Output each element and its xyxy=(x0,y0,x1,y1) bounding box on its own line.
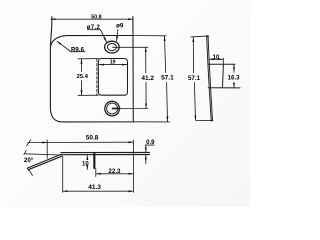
dimension 57.1 (side view) xyxy=(191,36,211,121)
dimension 50.8 (bottom view) xyxy=(27,140,134,193)
bottom view bent tab (20 degrees) xyxy=(27,154,61,169)
plate outline (front view) xyxy=(50,17,133,122)
svg-text:0.9: 0.9 xyxy=(146,140,155,146)
label 0.9 xyxy=(146,140,155,146)
dimension 19 (cutout width) xyxy=(99,64,127,66)
lip tongue (dark bar, bottom view) xyxy=(93,153,95,169)
label 41.2 xyxy=(141,75,154,82)
top hole inner circle xyxy=(107,44,116,51)
angle tick at tab tip xyxy=(27,168,32,175)
svg-text:50.8: 50.8 xyxy=(91,15,102,21)
label 50.8 top xyxy=(91,15,102,21)
bottom hole countersink outer circle xyxy=(105,101,120,116)
side view plate edge sliver xyxy=(207,36,213,121)
svg-text:10: 10 xyxy=(213,55,220,61)
dimension 10 (side view) xyxy=(209,58,223,64)
svg-text:50.8: 50.8 xyxy=(86,135,99,142)
svg-text:41.3: 41.3 xyxy=(88,184,101,191)
angle reference line xyxy=(25,154,61,155)
svg-text:10: 10 xyxy=(82,161,89,167)
dimension 50.8 (front view top) xyxy=(51,18,133,20)
label diameter 7.2 xyxy=(87,25,101,31)
label 57.1 front xyxy=(161,75,174,82)
dimension 41.3 xyxy=(63,156,134,192)
svg-text:41.2: 41.2 xyxy=(141,75,154,82)
dimension 0.9 (thickness) xyxy=(145,145,154,163)
dimension 16.3 (side view) xyxy=(233,65,235,88)
label diameter 9 xyxy=(116,22,124,29)
bottom view plate bar bottom line xyxy=(61,154,149,156)
angle tick at reference line end xyxy=(24,150,26,154)
leader radius R9.6 xyxy=(57,41,85,52)
bottom view plate bar top line xyxy=(61,151,150,153)
svg-text:ø7.2: ø7.2 xyxy=(87,25,101,31)
label 25.4 xyxy=(77,74,89,80)
dimension 10 (lip depth, bottom view) xyxy=(86,155,88,169)
label 16.3 xyxy=(228,75,241,82)
label 41.3 xyxy=(88,184,101,191)
label 22.3 xyxy=(108,168,121,175)
svg-text:57.1: 57.1 xyxy=(188,75,201,82)
dimension 57.1 (front view height) xyxy=(133,36,169,122)
top hole countersink outer circle xyxy=(105,41,120,53)
svg-text:19: 19 xyxy=(110,60,116,66)
svg-text:25.4: 25.4 xyxy=(77,74,89,80)
label 19 xyxy=(110,60,116,66)
label 20 degrees xyxy=(24,157,34,164)
rectangular latch cutout xyxy=(98,59,127,96)
label 50.8 bottom xyxy=(86,135,99,142)
label 10 bottom xyxy=(82,161,89,167)
label 10 side xyxy=(213,55,220,61)
leader diameter 9 xyxy=(117,29,118,41)
svg-text:20°: 20° xyxy=(24,157,34,164)
side view lip flange xyxy=(208,64,240,88)
svg-text:57.1: 57.1 xyxy=(161,75,174,82)
svg-text:16.3: 16.3 xyxy=(228,75,241,82)
leader diameter 7.2 xyxy=(88,30,107,43)
svg-text:R9.6: R9.6 xyxy=(71,46,85,53)
svg-text:ø9: ø9 xyxy=(116,22,124,29)
dimension 25.4 (cutout height) xyxy=(78,59,98,96)
label R9.6 xyxy=(71,46,85,53)
dimension 22.3 xyxy=(96,169,134,177)
hidden bend line (dashed) xyxy=(96,59,98,95)
svg-text:22.3: 22.3 xyxy=(108,168,121,175)
bottom hole inner circle xyxy=(107,103,118,114)
label 57.1 side xyxy=(188,75,201,82)
dimension 41.2 (hole centers) xyxy=(112,47,148,108)
